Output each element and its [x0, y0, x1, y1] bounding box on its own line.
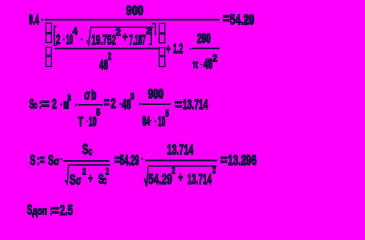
svg-text:=: = [104, 95, 110, 110]
inner left paren [54, 26, 56, 45]
left big bracket (missing-glyph boxes) [46, 23, 52, 32]
svg-text:=: = [52, 203, 60, 218]
multiply dot [141, 158, 143, 160]
svg-text:13.714: 13.714 [187, 172, 212, 188]
blob fills mimicking downscale artifacts [70, 7, 254, 166]
svg-text:=: = [223, 12, 230, 28]
svg-text:2: 2 [108, 51, 112, 62]
fraction sigma-b / T 10^5 [78, 104, 103, 106]
svg-text:c: c [34, 99, 38, 111]
svg-text:2: 2 [82, 167, 86, 178]
svg-text:7.187: 7.187 [129, 32, 146, 47]
svg-text:2: 2 [116, 26, 121, 38]
svg-text:доп: доп [32, 205, 47, 217]
multiply dot [61, 158, 63, 160]
main fraction bar [45, 19, 220, 21]
svg-text:13.714: 13.714 [167, 143, 194, 159]
svg-text:2: 2 [52, 97, 57, 112]
svg-text:0.4: 0.4 [29, 12, 39, 28]
svg-text:=: = [41, 97, 49, 112]
fraction 290 / pi 48^2 [192, 48, 220, 50]
svg-text:2: 2 [212, 165, 216, 176]
svg-text:4: 4 [73, 26, 78, 37]
radical of denominator [65, 165, 69, 184]
svg-text:5: 5 [166, 109, 170, 120]
svg-text:=: = [221, 153, 228, 169]
svg-text:2: 2 [111, 96, 116, 111]
svg-text::=: := [37, 153, 45, 169]
svg-text:c: c [88, 146, 92, 158]
square root radical [87, 28, 91, 45]
svg-text:2: 2 [106, 167, 109, 178]
svg-text:σ: σ [54, 156, 60, 168]
inner fraction bar [55, 48, 160, 50]
radical of denominator [144, 167, 148, 186]
fraction bar Sc over sqrt [63, 160, 109, 162]
svg-text:2.5: 2.5 [60, 203, 73, 219]
svg-text:19.752: 19.752 [92, 32, 116, 47]
coefficient 0.4 [29, 14, 32, 23]
svg-text:54.29: 54.29 [120, 153, 139, 169]
svg-text:σ: σ [84, 86, 91, 102]
svg-text:2: 2 [213, 53, 218, 64]
svg-text:2: 2 [56, 32, 60, 47]
svg-text:π: π [193, 59, 199, 71]
svg-text:+: + [178, 171, 183, 185]
fraction bar 13.714 over sqrt [145, 160, 217, 162]
inner right paren [149, 27, 152, 44]
multiply dot [41, 19, 43, 21]
svg-text:=: = [175, 97, 183, 112]
svg-text:T: T [78, 114, 83, 129]
svg-text:S: S [70, 171, 76, 188]
fraction 900 / 8.4 10^5 [142, 103, 171, 105]
svg-text:σ: σ [76, 173, 81, 187]
svg-text:54.29: 54.29 [148, 172, 172, 188]
svg-text:3: 3 [67, 93, 71, 104]
bracket top piece [152, 24, 156, 36]
svg-text:+: + [166, 41, 170, 56]
svg-text:1.2: 1.2 [173, 40, 183, 56]
svg-text:5: 5 [96, 107, 101, 118]
svg-text:+: + [88, 172, 92, 186]
right big bracket (missing-glyph boxes) [159, 24, 165, 33]
svg-text:13.714: 13.714 [183, 97, 209, 112]
svg-text:S: S [30, 153, 36, 169]
svg-text:+: + [123, 30, 128, 44]
svg-text:2: 2 [172, 166, 176, 177]
